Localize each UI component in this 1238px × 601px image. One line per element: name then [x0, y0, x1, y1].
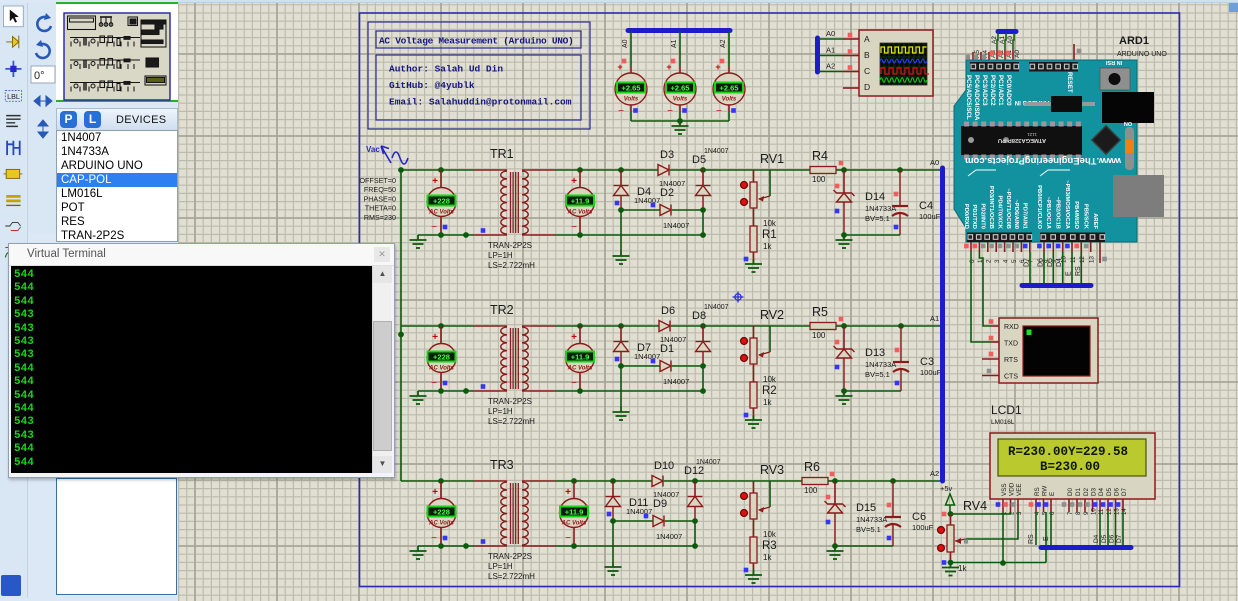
junction row3 d2col top	[692, 478, 698, 484]
svg-text:12: 12	[1079, 256, 1086, 263]
pin square C4 top	[894, 192, 899, 197]
resistor R3 lead	[753, 563, 755, 570]
pin square analog A1	[998, 51, 1003, 56]
transformer TR1 core	[510, 172, 512, 233]
wire row3 meter1 stub top	[440, 481, 442, 499]
svg-text:AC Voltage Measurement (Arduin: AC Voltage Measurement (Arduino UNO)	[379, 36, 573, 47]
svg-text:D1: D1	[660, 343, 674, 355]
svg-text:D8: D8	[692, 310, 706, 322]
pin square C6 top	[887, 503, 892, 508]
pin square D4	[615, 201, 620, 206]
junction row2 c2 bottom	[700, 388, 706, 394]
svg-text:1N4007: 1N4007	[634, 352, 660, 361]
svg-text:D12: D12	[684, 465, 704, 477]
svg-text:1121: 1121	[1027, 132, 1037, 137]
pin square row1 prim	[481, 228, 486, 233]
svg-text:AC Volts: AC Volts	[428, 210, 454, 216]
svg-text:D14: D14	[865, 191, 885, 203]
svg-text:RV3: RV3	[760, 463, 784, 477]
wire row1 primary bottom	[418, 234, 474, 236]
diode D9 (653)	[653, 516, 664, 527]
svg-text:1N4007: 1N4007	[656, 532, 682, 541]
svg-text:10k: 10k	[763, 375, 777, 384]
junction row1 c2 mid	[700, 207, 706, 213]
transformer TR3 core	[510, 483, 512, 544]
junction row2 sec bottom	[577, 388, 583, 394]
ground row1 primary	[410, 235, 427, 248]
diode D8 lead	[702, 326, 704, 342]
pin square D13 top	[835, 340, 840, 345]
junction row1 zener bottom	[841, 232, 847, 238]
svg-text:PD1/TXD: PD1/TXD	[971, 205, 977, 229]
pot RV3 lead top	[753, 481, 755, 493]
junction rail row2	[398, 332, 404, 338]
svg-text:AC Volts: AC Volts	[428, 366, 454, 372]
ground R2	[745, 415, 762, 428]
voltmeter A0 (+2.65 Volts)	[615, 73, 647, 105]
svg-text:C: C	[864, 66, 870, 76]
svg-text:D5: D5	[1106, 487, 1113, 496]
resistor R5 body	[810, 323, 836, 330]
wire osc A0	[819, 38, 843, 40]
svg-text:+: +	[432, 332, 438, 343]
toolbar icon terminal mode	[5, 222, 20, 230]
Vac source symbol	[381, 146, 408, 164]
arduino power diode	[1025, 102, 1095, 106]
pin square row2 prim	[481, 384, 486, 389]
pin square RV4 top	[942, 512, 947, 517]
junction row3 prim bottom b	[463, 543, 469, 549]
svg-text:RMS=230: RMS=230	[364, 213, 396, 222]
wire row1 mid	[621, 209, 660, 211]
svg-text:11: 11	[1070, 256, 1077, 263]
svg-text:VDD: VDD	[1009, 482, 1016, 496]
svg-text:D15: D15	[856, 502, 876, 514]
rotate tool rotate cw	[37, 13, 51, 31]
svg-text:+11.9: +11.9	[571, 353, 590, 362]
junction row3 c1 mid	[610, 518, 616, 524]
wire meter A2 bottom	[728, 105, 730, 111]
svg-text:LS=2.722mH: LS=2.722mH	[488, 417, 535, 426]
svg-text:−: −	[667, 106, 673, 117]
capacitor C3 lead top	[900, 326, 902, 362]
svg-text:TR2: TR2	[490, 303, 514, 317]
svg-text:PB4/MISO: PB4/MISO	[1073, 201, 1079, 229]
svg-text:RXD: RXD	[1004, 324, 1019, 331]
wire row1 meter2 stub top	[579, 170, 581, 188]
wire meter A2 top	[728, 31, 730, 66]
wire CTS stub	[982, 375, 999, 377]
voltmeter A2 (+2.65 Volts)	[713, 73, 745, 105]
pin square R6	[830, 472, 835, 477]
svg-text:BV=5.1: BV=5.1	[856, 525, 881, 534]
pot RV4 wiper	[955, 539, 966, 541]
ground row2 diode col	[613, 407, 630, 420]
svg-text:1N4733A: 1N4733A	[856, 515, 887, 524]
svg-text:+2.65: +2.65	[671, 84, 690, 93]
resistor R2 lead	[753, 408, 755, 415]
svg-text:D1: D1	[1075, 487, 1082, 496]
resistor R3 body	[750, 537, 757, 563]
svg-text:1k: 1k	[958, 564, 967, 573]
voltmeter row2 primary (+228)	[427, 344, 456, 373]
pin square minus A0	[633, 108, 638, 113]
wire meter A1 top	[679, 31, 681, 66]
wire row3 c1 to gnd	[612, 521, 614, 562]
svg-text:RV4: RV4	[963, 499, 987, 513]
diode D10 (652)	[652, 476, 663, 487]
pot RV4 body	[947, 525, 954, 552]
svg-text:~PD6/AIN0: ~PD6/AIN0	[1013, 200, 1019, 229]
junction RV4 bottom	[948, 560, 954, 566]
diode D7 lead	[620, 326, 622, 342]
pin square D15 top	[826, 495, 831, 500]
pin square R3	[744, 568, 749, 573]
wire row3 secondary top	[530, 480, 555, 482]
junction row3 prim bottom a	[438, 543, 444, 549]
svg-text:−: −	[716, 106, 722, 117]
wire pin1 to RXD	[979, 252, 991, 326]
transformer TR2 core	[510, 328, 512, 389]
pin square meter1b row3	[443, 536, 448, 541]
svg-text:A1: A1	[671, 39, 678, 48]
junction Vac rail row1	[398, 167, 404, 173]
wire row2 c2 riser	[702, 366, 704, 391]
junction row3 zener bottom	[832, 543, 838, 549]
svg-text:+228: +228	[433, 353, 450, 362]
wire analog A1	[1005, 33, 1006, 50]
svg-text:100: 100	[804, 486, 818, 495]
svg-text:R4: R4	[812, 149, 828, 163]
arduino header digital1	[967, 233, 1032, 243]
svg-text:1N4007: 1N4007	[634, 196, 660, 205]
pin square R4	[839, 161, 844, 166]
svg-text:A2: A2	[720, 39, 727, 48]
svg-text:100uF: 100uF	[919, 212, 941, 221]
transformer TR3 secondary coil	[522, 480, 530, 482]
wire row2 primary top	[401, 325, 474, 327]
svg-text:D7: D7	[1024, 258, 1031, 267]
diode D12 (695)	[688, 497, 703, 507]
junction row2 prim bottom b	[463, 388, 469, 394]
wire row3 zener-cap bottom	[835, 545, 893, 547]
junction row1 sec bottom	[577, 232, 583, 238]
svg-text:A0: A0	[826, 29, 835, 38]
ground row2 primary	[410, 391, 427, 404]
svg-text:C4: C4	[919, 200, 933, 212]
toolbar icon wire label mode	[5, 91, 21, 102]
resistor R4 body	[810, 167, 836, 174]
svg-text:AC Volts: AC Volts	[428, 521, 454, 527]
pin square minus A2	[731, 108, 736, 113]
diode D5 lead2	[702, 196, 704, 211]
svg-text:1N4733A: 1N4733A	[865, 204, 896, 213]
wire row3 r out	[828, 480, 835, 482]
pot RV1 wiper wire	[769, 170, 771, 196]
pin square C3 top	[895, 348, 900, 353]
pin square analog A3	[982, 55, 987, 60]
svg-text:0°: 0°	[34, 70, 45, 82]
wire D7 to bus	[1029, 252, 1031, 283]
svg-text:R2: R2	[762, 385, 777, 397]
junction meters gnd	[677, 118, 683, 124]
svg-text:TRAN-2P2S: TRAN-2P2S	[488, 552, 532, 561]
wire VSS to gnd rail	[1002, 512, 1004, 563]
voltmeter A1 (+2.65 Volts)	[664, 73, 696, 105]
junction row1 prim bottom b	[463, 232, 469, 238]
svg-text:1N4007: 1N4007	[626, 507, 652, 516]
ground R3	[745, 570, 762, 583]
pin square A0	[622, 59, 627, 64]
svg-text:E: E	[1066, 271, 1073, 276]
pin square osc A0	[848, 33, 853, 38]
diode D2 (660)	[660, 205, 671, 216]
pin square D7	[615, 357, 620, 362]
pin square R2	[744, 413, 749, 418]
svg-text:VEE: VEE	[1016, 483, 1023, 496]
ground row3 primary	[410, 546, 427, 559]
junction row2 sec meter top	[577, 323, 583, 329]
svg-text:D4: D4	[1098, 487, 1105, 496]
svg-text:+2.65: +2.65	[720, 84, 739, 93]
svg-text:RESET: RESET	[1066, 72, 1073, 93]
svg-text:Volts: Volts	[624, 97, 639, 103]
svg-text:E: E	[1049, 492, 1056, 496]
diode D4 lead	[620, 170, 622, 186]
wire row3 mid	[613, 520, 653, 522]
svg-text:D4: D4	[1056, 258, 1063, 267]
svg-text:D5: D5	[692, 154, 706, 166]
junction VSS rail	[1000, 560, 1006, 566]
svg-text:RW: RW	[1042, 486, 1049, 496]
toolbar icon text script mode	[6, 116, 20, 127]
wire analog A0	[1013, 33, 1014, 50]
diode D3 (658)	[658, 165, 669, 176]
wire row1 meter1 stub top	[440, 170, 442, 188]
ground meters	[672, 121, 689, 134]
svg-text:PD2/INT0: PD2/INT0	[980, 204, 986, 229]
svg-text:PC1/ADC1: PC1/ADC1	[997, 75, 1004, 106]
capacitor C4 lead bottom	[899, 213, 901, 235]
zener D13	[834, 346, 855, 358]
zener D15 lead top	[834, 481, 836, 504]
diode D8 lead2	[702, 352, 704, 367]
wire AREF stub	[1099, 242, 1101, 263]
junction row1 cap top	[897, 167, 903, 173]
junction row1 d2col top	[700, 167, 706, 173]
svg-text:+11.9: +11.9	[571, 197, 590, 206]
svg-text:PB5/SCK: PB5/SCK	[1083, 204, 1089, 230]
wire pin0 to TXD	[971, 252, 991, 342]
svg-text:B=230.00: B=230.00	[1040, 460, 1100, 474]
voltmeter row3 secondary (+11.9)	[560, 499, 589, 528]
svg-text:R3: R3	[762, 540, 777, 552]
junction row2 c2 mid	[700, 363, 706, 369]
svg-text:R6: R6	[804, 460, 820, 474]
ground row1 diode col	[613, 251, 630, 264]
pot RV1 body	[750, 182, 757, 208]
svg-text:TR3: TR3	[490, 458, 514, 472]
svg-text:D3: D3	[1091, 487, 1098, 496]
pot RV4 lead bottom	[950, 552, 952, 563]
svg-text:THETA=0: THETA=0	[365, 204, 396, 213]
transformer TR1 secondary coil	[522, 169, 530, 171]
svg-text:LBL: LBL	[7, 92, 20, 101]
svg-text:LCD1: LCD1	[991, 403, 1022, 417]
pin square meter1b row2	[443, 381, 448, 386]
pin square C3 bottom	[895, 381, 900, 386]
svg-text:PB0/ICP1/CLKO: PB0/ICP1/CLKO	[1036, 185, 1042, 229]
toolbar icon component mode	[6, 36, 19, 49]
ground row2 zener	[836, 391, 853, 404]
svg-text:D5: D5	[1047, 258, 1054, 267]
svg-text:+: +	[565, 487, 571, 498]
svg-text:100: 100	[812, 331, 826, 340]
origin marker	[733, 292, 744, 303]
junction row1 c2 bottom	[700, 232, 706, 238]
svg-text:FREQ=50: FREQ=50	[364, 185, 396, 194]
wire row1 primary top	[401, 169, 474, 171]
oscilloscope screen	[880, 43, 929, 85]
oscilloscope pin D wire	[843, 87, 859, 89]
svg-text:−: −	[431, 222, 437, 233]
wire RS to bus	[1080, 252, 1082, 283]
junction row1 primary meter top	[438, 167, 444, 173]
svg-text:Vac: Vac	[366, 145, 380, 154]
resistor R1 body	[750, 226, 757, 252]
svg-text:AC Volts: AC Volts	[561, 521, 587, 527]
wire VEE to RV4 wiper	[966, 512, 1018, 539]
wire row2 secondary top	[530, 325, 555, 327]
arduino board	[954, 60, 1137, 242]
wire row2 mid	[621, 365, 660, 367]
svg-text:+: +	[571, 332, 577, 343]
junction row2 cap top	[898, 323, 904, 329]
svg-text:CTS: CTS	[1004, 374, 1018, 381]
pin square D9	[644, 514, 649, 519]
svg-text:A1: A1	[826, 46, 835, 55]
wire row1 c1 to gnd	[620, 210, 622, 251]
svg-text:1k: 1k	[763, 398, 772, 407]
junction row2 zener top	[841, 323, 847, 329]
diode D7 (621)	[614, 342, 629, 352]
pin square analog A4	[974, 55, 979, 60]
svg-text:AC Volts: AC Volts	[567, 210, 593, 216]
svg-text:D6: D6	[661, 305, 675, 317]
junction row1 c1 mid	[618, 207, 624, 213]
wire row2 meter2 stub top	[579, 326, 581, 344]
diode D12 lead	[694, 481, 696, 497]
svg-text:LP=1H: LP=1H	[488, 562, 513, 571]
wire meter A0 bottom	[630, 105, 632, 111]
wire analog A2	[997, 33, 998, 50]
diode D5 (703)	[696, 186, 711, 196]
svg-text:www.TheEngineeringProjects.com: www.TheEngineeringProjects.com	[965, 155, 1122, 166]
svg-text:−: −	[431, 378, 437, 389]
wire osc A2	[819, 71, 843, 73]
bus arduino digital	[1022, 283, 1091, 288]
zener D14 lead bottom	[843, 202, 845, 235]
svg-text:+228: +228	[433, 197, 450, 206]
wire Vac rail	[400, 170, 402, 481]
arduino power jack	[1102, 92, 1154, 123]
pot RV3 body	[750, 493, 757, 519]
svg-text:D7: D7	[1116, 534, 1123, 543]
pot RV4 lead top	[950, 514, 952, 525]
pin square analog A0	[1006, 51, 1011, 56]
svg-text:PC2/ADC2: PC2/ADC2	[989, 75, 996, 106]
svg-text:+: +	[617, 62, 622, 72]
junction row3 primary meter top	[438, 478, 444, 484]
voltmeter row1 primary (+228)	[427, 188, 456, 217]
svg-text:E: E	[1043, 536, 1050, 541]
svg-text:LM016L: LM016L	[991, 419, 1015, 426]
diode D11 lead2	[612, 507, 614, 522]
svg-text:PC0/ADC0: PC0/ADC0	[1005, 75, 1012, 106]
svg-text:A1: A1	[930, 314, 939, 323]
ground row1 zener	[836, 235, 853, 248]
toolbar icon selector arrow	[4, 6, 24, 27]
svg-text:R5: R5	[812, 305, 828, 319]
zener D13 lead top	[843, 326, 845, 349]
wire row2 primary bottom	[418, 390, 474, 392]
title block frame	[368, 22, 590, 129]
svg-text:D5: D5	[1101, 534, 1108, 543]
pin square D14 bottom	[835, 209, 840, 214]
pin square A2	[720, 59, 725, 64]
junction row3 zener top	[832, 478, 838, 484]
junction row3 c2 bottom	[692, 543, 698, 549]
junction RV4 top	[948, 511, 954, 517]
wire row3 meter2 stub top	[573, 481, 575, 499]
svg-text:D13: D13	[865, 347, 885, 359]
pin square D15 bottom	[826, 520, 831, 525]
wire row1 secondary bottom	[530, 234, 555, 236]
ground RV4	[942, 563, 959, 576]
pin square meter1b row1	[443, 225, 448, 230]
svg-text:PD0/RXD: PD0/RXD	[963, 204, 969, 229]
virtual terminal cursor	[1027, 330, 1032, 336]
svg-text:LS=2.722mH: LS=2.722mH	[488, 572, 535, 581]
svg-text:ARD1: ARD1	[1119, 35, 1149, 47]
arduino brace marks	[968, 170, 1070, 176]
pin square osc A2	[848, 65, 853, 70]
junction row1 zener top	[841, 167, 847, 173]
pot RV4 pins	[938, 527, 945, 534]
transformer TR1 primary coil	[500, 169, 507, 171]
capacitor C3 lead bottom	[900, 369, 902, 391]
svg-text:A2: A2	[991, 36, 998, 44]
ground row3 zener	[827, 546, 844, 559]
svg-text:A2: A2	[826, 62, 835, 71]
svg-text:10k: 10k	[763, 530, 777, 539]
schematic preview pane	[64, 13, 170, 100]
pin square analog A2	[990, 51, 995, 56]
pot RV2 lead bottom	[753, 364, 755, 382]
wire analog A5 stub	[972, 52, 974, 62]
svg-text:~PB2/OC1B: ~PB2/OC1B	[1055, 197, 1061, 229]
wire row2 r out	[836, 325, 844, 327]
pot RV1 wiper	[759, 196, 770, 199]
arduino crystal diamond	[1092, 126, 1120, 154]
arduino header digital2	[1040, 233, 1105, 243]
svg-text:RV2: RV2	[760, 308, 784, 322]
wire VDD to +5v	[951, 512, 1011, 514]
wire reset stub	[1073, 44, 1075, 62]
wire row3 primary bottom	[418, 545, 474, 547]
svg-text:−: −	[618, 106, 624, 117]
arduino ATMEGA328 chip	[961, 126, 1082, 155]
